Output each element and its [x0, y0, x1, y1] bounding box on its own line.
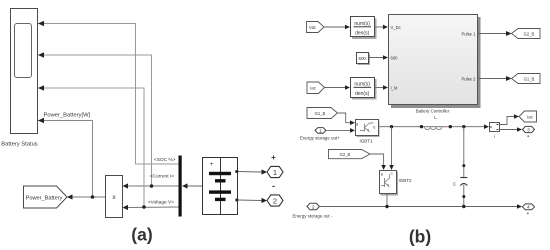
from tag G2_B — [329, 150, 371, 159]
svg-text:g: g — [356, 122, 358, 126]
wire 600 to controller — [369, 55, 389, 60]
svg-text:V_Dc: V_Dc — [391, 25, 401, 30]
wire Pulse1 to G2_B — [478, 31, 512, 36]
svg-text:G1_B: G1_B — [524, 76, 535, 81]
from tag Vdc — [307, 22, 325, 33]
wire battery m to bus selector — [182, 183, 207, 189]
IGBT2 block — [380, 171, 399, 196]
svg-text:i: i — [494, 134, 495, 139]
svg-text:IGBT1: IGBT1 — [359, 139, 373, 144]
wire Current feedback — [38, 52, 179, 188]
product block X — [106, 176, 123, 218]
wire port1 to IGBT1 — [327, 128, 356, 133]
wire Vdc to TF1 — [324, 25, 350, 30]
from tag Iac — [307, 82, 325, 94]
wire junction to IGBT2 collector — [389, 127, 394, 170]
svg-text:IGBT2: IGBT2 — [399, 178, 413, 183]
wire measurement to port 3 — [500, 127, 523, 132]
svg-text:+: + — [210, 161, 214, 168]
svg-text:+: + — [271, 153, 276, 162]
wire Voltage feedback — [38, 85, 179, 210]
capacitor C — [453, 127, 467, 207]
bottom rail wire — [319, 204, 522, 209]
svg-text:2: 2 — [273, 196, 277, 205]
from tag G1_B — [307, 108, 338, 119]
svg-text:<Voltage V>: <Voltage V> — [148, 200, 174, 206]
goto tag Power_Battery — [24, 186, 68, 208]
svg-text:Pulse 1: Pulse 1 — [462, 31, 477, 36]
current measurement block i — [490, 123, 500, 140]
wire TF2 to controller — [375, 85, 389, 90]
wire IGBT1 output rail — [378, 124, 489, 129]
svg-text:G2_B: G2_B — [524, 31, 535, 36]
wire Pulse2 to G1_B — [478, 76, 512, 81]
transfer function block TF2 — [351, 78, 377, 100]
bus selector bar — [179, 156, 182, 217]
svg-text:G2_B: G2_B — [340, 152, 351, 157]
wire TF1 to controller — [375, 25, 389, 30]
transfer function block TF1 — [351, 17, 377, 40]
constant block 600 — [357, 53, 371, 66]
svg-text:num(s): num(s) — [354, 21, 370, 27]
wire battery minus to port2 — [238, 198, 267, 203]
IGBT1 block — [356, 120, 380, 138]
svg-text:<SOC %>: <SOC %> — [154, 157, 176, 163]
svg-text:Iac: Iac — [527, 114, 533, 119]
svg-text:Battery Status: Battery Status — [1, 142, 38, 148]
inductor L — [425, 115, 448, 130]
svg-text:L: L — [434, 115, 437, 120]
svg-text:I_M: I_M — [391, 86, 398, 91]
battery block — [203, 158, 239, 215]
svg-text:num(s): num(s) — [354, 82, 370, 88]
svg-text:(b): (b) — [409, 227, 431, 247]
svg-text:3: 3 — [527, 127, 530, 133]
svg-text:<Current I>: <Current I> — [150, 174, 174, 180]
svg-text:(a): (a) — [131, 224, 152, 244]
goto tag G1_B — [512, 74, 541, 84]
svg-text:2: 2 — [312, 204, 315, 210]
port 4 oval — [523, 204, 535, 215]
svg-text:1: 1 — [319, 128, 322, 134]
wire Iac to TF2 — [325, 85, 351, 90]
svg-text:600: 600 — [359, 56, 367, 61]
port 3 oval — [523, 126, 535, 137]
scope block Battery Status — [1, 9, 38, 148]
svg-text:Energy storage out+: Energy storage out+ — [300, 135, 340, 140]
svg-text:Power_Battery: Power_Battery — [26, 196, 63, 202]
wire measurement to Iac tag — [500, 114, 520, 124]
svg-text:g: g — [381, 172, 383, 176]
svg-text:Pulse 2: Pulse 2 — [462, 76, 477, 81]
svg-text:den(s): den(s) — [355, 31, 370, 37]
port 1 hexagon — [267, 166, 283, 177]
svg-text:den(s): den(s) — [355, 91, 370, 97]
wire G1_B to IGBT1 gate — [338, 113, 356, 125]
svg-text:C: C — [453, 182, 457, 187]
svg-text:Vdc: Vdc — [309, 25, 316, 30]
svg-text:4: 4 — [527, 205, 530, 211]
svg-text:G1_B: G1_B — [315, 111, 326, 116]
wire SOC feedback — [38, 21, 179, 164]
wire product output to goto and scope — [38, 118, 106, 200]
port 2 oval — [307, 203, 319, 210]
svg-text:600: 600 — [391, 55, 399, 60]
subsystem Battery Controller — [389, 15, 481, 114]
goto tag G2_B — [512, 29, 541, 39]
svg-text:Power_Battery[W]: Power_Battery[W] — [44, 113, 91, 119]
port 2 hexagon — [267, 195, 283, 206]
svg-text:1: 1 — [273, 168, 277, 177]
goto tag Iac — [519, 111, 537, 122]
svg-text:Iac: Iac — [310, 85, 316, 90]
wire IGBT2 emitter to bottom rail — [386, 194, 388, 207]
wire battery plus to port1 — [238, 169, 267, 174]
svg-text:Energy storage out -: Energy storage out - — [293, 213, 333, 218]
svg-text:-: - — [272, 181, 275, 191]
port 1 oval — [315, 128, 326, 135]
svg-text:Battery Controller: Battery Controller — [416, 109, 450, 114]
wire G2_B to IGBT2 gate — [370, 154, 386, 170]
